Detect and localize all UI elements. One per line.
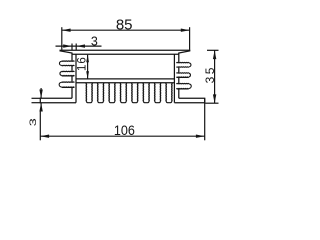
svg-text:85: 85 <box>116 16 133 33</box>
plate right taper lip <box>178 51 190 53</box>
fin 5 <box>132 83 138 103</box>
dim 3 (flange) line / arrows outside <box>40 88 42 98</box>
web top line <box>76 78 174 80</box>
dim 35 line <box>214 50 216 103</box>
dim 3 (flange) extension ticks <box>32 97 41 99</box>
left clamp tooth 1 <box>59 61 74 66</box>
dim 106 line <box>40 135 204 137</box>
right flange <box>174 98 204 102</box>
svg-text:106: 106 <box>114 122 135 138</box>
fin 2 <box>98 83 104 103</box>
right clamp tooth 3 <box>176 83 191 89</box>
dim 85 line <box>62 29 190 31</box>
plate left taper lip <box>60 51 73 53</box>
left wall inner face <box>75 54 77 102</box>
fin 1 <box>86 83 92 103</box>
dim 106 extension lines <box>39 111 41 141</box>
right clamp tooth 2 <box>176 73 190 78</box>
dim 35 extension ticks <box>207 49 219 51</box>
fin 4 <box>120 83 126 103</box>
svg-text:35: 35 <box>203 65 217 83</box>
left clamp tooth 2 <box>60 71 75 76</box>
heatsink profile top plate <box>60 49 191 51</box>
fin 7 <box>155 83 161 103</box>
right clamp tooth 1 <box>176 62 191 67</box>
svg-text:3: 3 <box>91 35 98 49</box>
left flange <box>40 98 76 102</box>
web bottom line <box>76 82 174 84</box>
left clamp tooth 3 <box>59 82 74 88</box>
left wall outer face <box>71 53 73 98</box>
cavity ceiling <box>72 53 179 55</box>
dim 85 extension lines <box>61 27 63 50</box>
right wall outer face <box>178 53 180 98</box>
dim 3 (wall) extension ticks <box>71 44 73 51</box>
right wall inner face <box>173 54 175 102</box>
fin 3 <box>109 83 115 103</box>
dim 16 line <box>87 55 89 79</box>
dim 3 (wall) line with outside arrows <box>56 45 102 47</box>
svg-text:3: 3 <box>28 118 38 126</box>
fin 8 <box>166 83 172 103</box>
fin 6 <box>143 83 149 103</box>
svg-text:16: 16 <box>77 56 89 71</box>
